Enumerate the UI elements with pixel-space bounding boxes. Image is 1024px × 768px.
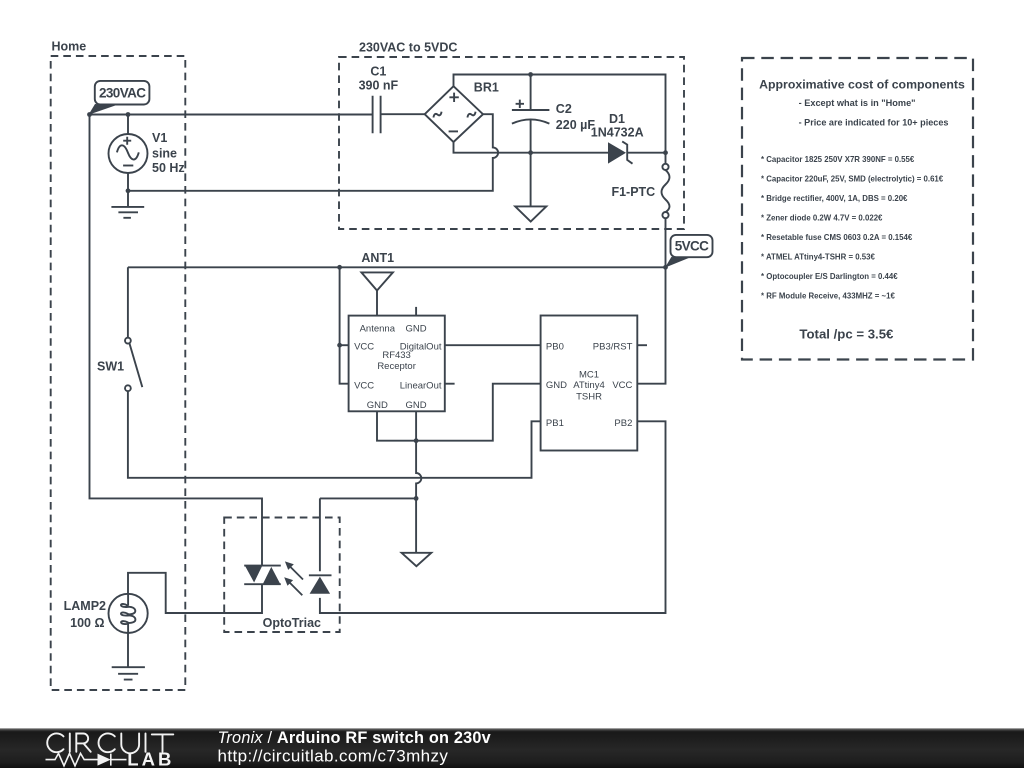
svg-text:GND: GND	[405, 400, 426, 411]
svg-text:LinearOut: LinearOut	[400, 381, 442, 392]
svg-text:* Resetable fuse CMS 0603 0.2A: * Resetable fuse CMS 0603 0.2A = 0.154€	[761, 233, 913, 242]
svg-text:LAMP2: LAMP2	[64, 599, 106, 613]
svg-text:PB1: PB1	[546, 418, 564, 429]
svg-text:GND: GND	[405, 324, 426, 335]
svg-text:SW1: SW1	[97, 360, 124, 374]
svg-text:PB3/RST: PB3/RST	[593, 342, 633, 353]
svg-text:* Capacitor 220uF, 25V, SMD (e: * Capacitor 220uF, 25V, SMD (electrolyti…	[761, 175, 944, 184]
svg-text:- Except what is in "Home": - Except what is in "Home"	[799, 98, 916, 108]
svg-text:230VAC to 5VDC: 230VAC to 5VDC	[359, 41, 457, 55]
svg-text:C2: C2	[556, 102, 572, 116]
svg-text:220 µF: 220 µF	[556, 118, 596, 132]
svg-text:VCC: VCC	[354, 342, 374, 353]
svg-text:RF433: RF433	[382, 350, 411, 361]
svg-text:LAB: LAB	[127, 748, 174, 768]
svg-text:* Zener diode 0.2W 4.7V = 0.02: * Zener diode 0.2W 4.7V = 0.022€	[761, 214, 883, 223]
svg-text:MC1: MC1	[579, 370, 599, 381]
svg-text:- Price are indicated for 10+: - Price are indicated for 10+ pieces	[799, 118, 949, 128]
svg-text:390 nF: 390 nF	[359, 79, 399, 93]
svg-text:F1-PTC: F1-PTC	[611, 185, 655, 199]
svg-text:sine: sine	[152, 147, 177, 161]
svg-text:1N4732A: 1N4732A	[591, 126, 644, 140]
svg-text:GND: GND	[367, 400, 388, 411]
svg-text:* ATMEL ATtiny4-TSHR = 0.53€: * ATMEL ATtiny4-TSHR = 0.53€	[761, 253, 875, 262]
svg-text:* Capacitor 1825 250V X7R 390N: * Capacitor 1825 250V X7R 390NF = 0.55€	[761, 155, 915, 164]
svg-text:* RF Module Receive, 433MHZ =: * RF Module Receive, 433MHZ = ~1€	[761, 292, 895, 301]
svg-text:http://circuitlab.com/c73mhzy: http://circuitlab.com/c73mhzy	[218, 747, 449, 766]
svg-text:ATtiny4: ATtiny4	[573, 380, 605, 391]
svg-text:GND: GND	[546, 380, 567, 391]
svg-text:BR1: BR1	[474, 81, 499, 95]
svg-text:Receptor: Receptor	[377, 361, 416, 372]
svg-text:V1: V1	[152, 131, 167, 145]
svg-text:C1: C1	[370, 65, 386, 79]
svg-text:ANT1: ANT1	[361, 251, 394, 265]
svg-text:Total /pc = 3.5€: Total /pc = 3.5€	[799, 327, 894, 342]
svg-text:PB2: PB2	[614, 418, 632, 429]
svg-text:PB0: PB0	[546, 342, 564, 353]
svg-text:VCC: VCC	[612, 380, 632, 391]
svg-text:OptoTriac: OptoTriac	[263, 616, 321, 630]
svg-text:* Bridge rectifier, 400V, 1A,: * Bridge rectifier, 400V, 1A, DBS = 0.20…	[761, 194, 908, 203]
svg-text:5VCC: 5VCC	[675, 239, 709, 254]
svg-text:VCC: VCC	[354, 381, 374, 392]
svg-text:D1: D1	[609, 112, 625, 126]
svg-text:TSHR: TSHR	[576, 391, 602, 402]
svg-text:100 Ω: 100 Ω	[70, 616, 104, 630]
svg-text:Antenna: Antenna	[360, 324, 396, 335]
svg-text:Tronix / Arduino RF switch on: Tronix / Arduino RF switch on 230v	[218, 729, 491, 747]
svg-text:Approximative cost of componen: Approximative cost of components	[759, 78, 965, 92]
svg-text:Home: Home	[52, 40, 87, 54]
svg-text:50 Hz: 50 Hz	[152, 161, 185, 175]
svg-text:* Optocoupler E/S Darlington =: * Optocoupler E/S Darlington = 0.44€	[761, 272, 898, 281]
svg-text:230VAC: 230VAC	[99, 86, 146, 101]
